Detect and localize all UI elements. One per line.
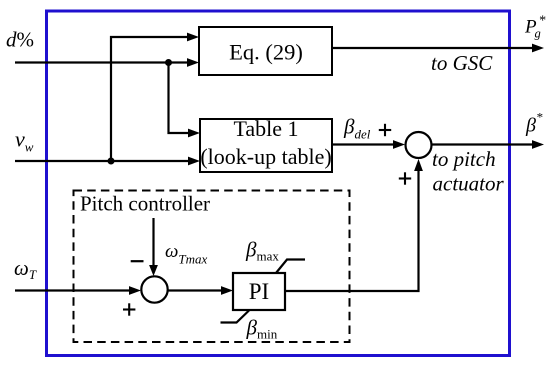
label minus (wTmax input) xyxy=(131,260,144,262)
block Table 1 (look-up table) xyxy=(200,116,332,172)
svg-text:to pitch: to pitch xyxy=(432,147,496,171)
svg-text:to GSC: to GSC xyxy=(431,51,493,75)
label plus (wT input) xyxy=(123,303,135,315)
svg-text:(look-up table): (look-up table) xyxy=(200,144,331,169)
junction on d% wire xyxy=(165,59,172,66)
upper saturation limit mark xyxy=(276,260,305,274)
label plus (PI branch input) xyxy=(399,172,411,184)
svg-text:g: g xyxy=(535,27,541,41)
wire vw input to Table block xyxy=(15,160,189,162)
wire S2 output to PI block xyxy=(168,289,222,291)
label Pg* xyxy=(524,14,546,41)
wire wTmax reference down to summing junction S2 xyxy=(152,218,154,267)
wire d% branch down to Table block xyxy=(169,63,190,134)
wire PI output up to S1 xyxy=(285,166,419,291)
wire Table output beta_del to summing junction xyxy=(332,143,394,145)
wire vw branch up to Eq block xyxy=(111,37,188,161)
block Eq. (29) xyxy=(199,27,332,75)
summing junction S1 (pitch reference) xyxy=(406,132,432,158)
label to pitch actuator xyxy=(432,147,504,196)
svg-text:PI: PI xyxy=(249,279,269,304)
wire Eq output Pg* to GSC xyxy=(332,47,533,49)
label plus (beta_del input) xyxy=(379,124,391,136)
svg-text:d%: d% xyxy=(6,28,34,52)
svg-text:*: * xyxy=(539,14,546,29)
wire S1 output beta* xyxy=(432,143,534,145)
wire d% input to Eq block xyxy=(15,61,188,63)
summing junction S2 (speed error) xyxy=(141,276,167,302)
lower saturation limit mark xyxy=(221,311,250,323)
svg-text:Pitch controller: Pitch controller xyxy=(80,192,210,216)
block PI xyxy=(233,273,285,310)
junction on vw wire xyxy=(108,158,115,165)
svg-text:actuator: actuator xyxy=(433,172,505,196)
svg-text:Eq. (29): Eq. (29) xyxy=(229,39,303,64)
svg-text:Table 1: Table 1 xyxy=(233,116,298,141)
pitch controller dashed box xyxy=(74,191,350,343)
system boundary (blue frame) xyxy=(47,11,510,356)
wire wT input to summing junction S2 xyxy=(15,289,130,291)
